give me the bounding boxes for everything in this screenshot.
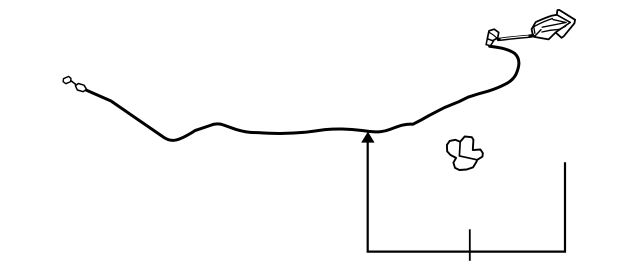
clip inner line — [459, 142, 477, 160]
handle inner chevron — [542, 20, 566, 28]
handle grip bottom-left edge — [535, 30, 542, 37]
handle cap inner edge — [534, 27, 535, 33]
leader tick — [469, 229, 471, 260]
handle grip top inner parallel line — [534, 19, 552, 27]
handle fold chevron from junction — [556, 15, 570, 32]
wire main cable — [87, 46, 519, 140]
cable end fitting knob (right) — [487, 29, 498, 41]
handle silhouette — [532, 10, 576, 40]
wire thin cable to handle — [499, 34, 538, 39]
cable end fitting foot — [486, 39, 494, 46]
clip grommet — [447, 137, 483, 171]
fitting knob inner line — [490, 33, 498, 39]
cable end loop (left tip) — [63, 76, 71, 83]
handle grip lower front edge — [542, 26, 566, 32]
wire thin cable white core — [501, 36, 529, 39]
cable ferrule (left) — [75, 84, 86, 92]
wire loop-to-ferrule link — [71, 81, 76, 85]
leader arrow stem and bracket — [368, 142, 565, 252]
leader arrowhead — [361, 132, 374, 143]
